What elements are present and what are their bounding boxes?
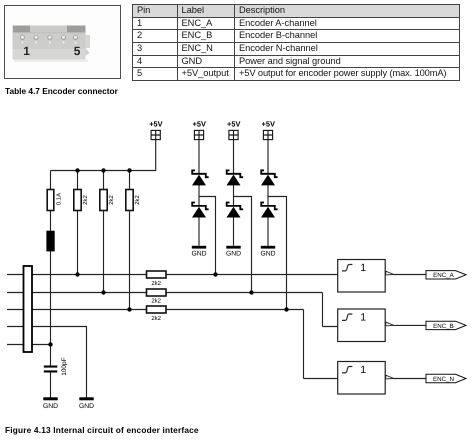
svg-text:ENC_N: ENC_N — [433, 376, 454, 383]
svg-text:+5V: +5V — [227, 119, 240, 128]
svg-text:ENC_A: ENC_A — [433, 272, 455, 279]
svg-text:GND: GND — [191, 250, 206, 257]
svg-text:2k2: 2k2 — [151, 297, 161, 304]
svg-text:ENC_B: ENC_B — [433, 323, 454, 330]
svg-text:1: 1 — [360, 311, 366, 323]
svg-text:GND: GND — [226, 250, 241, 257]
svg-text:+5V: +5V — [262, 119, 275, 128]
svg-text:2k2: 2k2 — [82, 194, 89, 204]
svg-text:2k2: 2k2 — [151, 280, 161, 287]
svg-text:100pF: 100pF — [61, 357, 68, 375]
svg-text:1: 1 — [360, 262, 366, 274]
svg-text:0.1A: 0.1A — [55, 193, 62, 205]
svg-text:2k2: 2k2 — [134, 194, 141, 204]
svg-text:GND: GND — [43, 403, 58, 410]
svg-text:2k2: 2k2 — [151, 315, 161, 322]
svg-text:+5V: +5V — [193, 119, 206, 128]
svg-text:+5V: +5V — [149, 119, 162, 128]
svg-text:2k2: 2k2 — [108, 194, 115, 204]
svg-text:GND: GND — [79, 403, 94, 410]
svg-text:GND: GND — [260, 250, 275, 257]
svg-text:1: 1 — [360, 364, 366, 376]
